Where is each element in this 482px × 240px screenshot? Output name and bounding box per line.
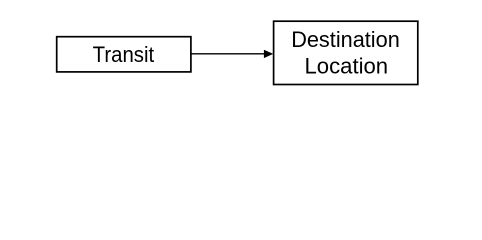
box: Transit <box>57 37 191 72</box>
svg-text:Location: Location <box>305 53 389 78</box>
wire: connector arrow shaft <box>192 53 266 55</box>
box: Destination Location <box>274 21 418 84</box>
arrowhead <box>264 50 273 58</box>
svg-text:Destination: Destination <box>291 27 400 52</box>
svg-text:Transit: Transit <box>93 42 155 67</box>
